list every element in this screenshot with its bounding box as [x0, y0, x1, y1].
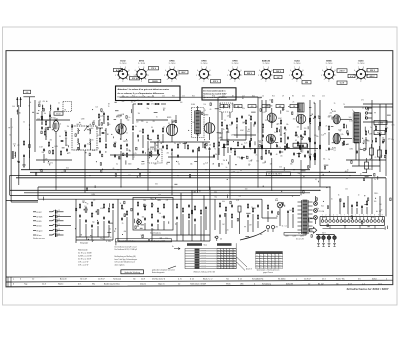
resistor R35 — [265, 149, 266, 155]
svg-text:40: 40 — [362, 108, 364, 110]
svg-text:60k: 60k — [365, 139, 368, 141]
svg-text:50p: 50p — [166, 199, 169, 201]
switch contact row 5 — [33, 229, 64, 233]
label box speaker 2 — [374, 131, 385, 135]
svg-text:50p: 50p — [152, 229, 155, 231]
label EL84 — [294, 60, 301, 66]
coil L7 — [89, 129, 92, 134]
svg-text:8k: 8k — [166, 163, 168, 165]
component labels band B tone — [75, 200, 116, 246]
svg-text:125: 125 — [139, 131, 142, 133]
power transformer pins — [298, 202, 313, 230]
svg-text:15k: 15k — [215, 154, 218, 156]
mixer grid extras — [98, 112, 108, 126]
svg-text:47k: 47k — [167, 152, 170, 154]
svg-text:12k: 12k — [259, 142, 262, 144]
resistor R85 — [343, 202, 344, 208]
tube V4 pentode — [204, 117, 215, 140]
svg-text:0,1: 0,1 — [11, 127, 13, 129]
svg-text:Ansicht: Ansicht — [60, 278, 67, 281]
dial lamp LP1 — [314, 202, 318, 206]
bus junction 3 — [89, 175, 90, 176]
wire ps8 — [261, 199, 263, 218]
wire f6 — [36, 119, 70, 121]
capacitor C22 — [254, 121, 256, 125]
svg-text:210 V: 210 V — [132, 78, 138, 80]
svg-text:40: 40 — [48, 162, 50, 164]
svg-text:25: 25 — [269, 99, 271, 101]
svg-text:0,1: 0,1 — [168, 123, 170, 125]
wire ot down 1 — [355, 143, 357, 161]
wire v2b — [126, 148, 128, 151]
capacitor C83 — [293, 152, 295, 156]
svg-text:oben ergeben.: oben ergeben. — [115, 264, 126, 266]
svg-text:30: 30 — [151, 127, 153, 129]
socket label box B11 — [337, 69, 347, 73]
wire f5 — [65, 138, 67, 146]
resistor R7 — [60, 150, 61, 156]
svg-text:C9: C9 — [282, 96, 284, 98]
wire tc6 — [108, 225, 110, 237]
svg-text:Tel.: Tel. — [226, 279, 230, 281]
svg-text:Der Innenwiderstand in: Der Innenwiderstand in — [203, 89, 226, 92]
svg-text:8,2k: 8,2k — [321, 206, 324, 208]
svg-text:215 V: 215 V — [340, 71, 346, 73]
capacitor C5 — [66, 148, 68, 152]
svg-text:Gedruckte Schaltung: Gedruckte Schaltung — [124, 271, 140, 274]
svg-text:50p: 50p — [214, 197, 217, 199]
resistor R68 — [137, 201, 138, 207]
svg-text:47k: 47k — [50, 163, 53, 165]
svg-text:C21: C21 — [162, 96, 165, 98]
tube V9 output — [333, 133, 340, 143]
svg-text:de ce schema, il y a d'importa: de ce schema, il y a d'importantes diffe… — [118, 92, 165, 95]
T1 dark column — [195, 249, 200, 269]
resistor R83 — [292, 207, 293, 213]
wire ant top — [23, 96, 35, 98]
resistor R97 — [41, 115, 42, 121]
electrolytic C41 — [378, 146, 382, 161]
wire link sparse 2 — [191, 190, 193, 241]
svg-text:125: 125 — [68, 153, 71, 155]
svg-text:5n: 5n — [163, 126, 165, 128]
electrolytic C77 — [365, 158, 369, 173]
wire f7 — [36, 159, 72, 161]
resistor R45 — [319, 121, 320, 127]
resistor R49 — [328, 125, 329, 131]
wire bl1 — [9, 176, 11, 196]
socket label box B4 — [149, 79, 161, 83]
svg-text:1 W = ca 1 W: 1 W = ca 1 W — [78, 262, 89, 264]
svg-text:5k: 5k — [298, 233, 300, 235]
svg-text:5k: 5k — [134, 101, 136, 103]
svg-text:60k: 60k — [372, 217, 375, 219]
socket pin 12 — [363, 215, 366, 223]
wire h1 — [300, 138, 302, 152]
svg-text:300: 300 — [158, 140, 161, 142]
svg-text:9: 9 — [147, 70, 148, 72]
capacitor C13 — [142, 150, 144, 154]
resistor R77 — [194, 205, 195, 211]
resistor R18 — [149, 151, 150, 157]
resistor R42 — [297, 141, 298, 147]
socket pin 2 — [325, 215, 328, 223]
svg-text:25: 25 — [120, 116, 122, 118]
wire ant rail 1 — [10, 118, 12, 202]
vertical link v4 — [147, 160, 149, 190]
junction dot 4 — [147, 190, 148, 191]
T1 left border — [184, 248, 186, 268]
component labels output — [325, 104, 350, 152]
resistor R31 — [223, 143, 224, 149]
svg-text:0.1: 0.1 — [295, 140, 297, 142]
wire tc5 — [103, 221, 105, 240]
wire rb6 — [366, 207, 368, 214]
resistor R51 — [343, 140, 344, 146]
component labels IF1 area — [133, 100, 170, 163]
resistor R65 — [112, 203, 113, 209]
wire e5 — [265, 100, 267, 112]
tube base diagram EF89 — [227, 67, 242, 83]
svg-text:9 - 70 14: 9 - 70 14 — [201, 63, 208, 65]
component labels band B mid — [120, 198, 177, 240]
svg-text:215: 215 — [256, 262, 258, 264]
svg-text:EL84: EL84 — [295, 60, 301, 63]
capacitor C18 — [209, 147, 211, 151]
lamp group feed line — [316, 232, 335, 234]
resistor R24 — [204, 143, 205, 149]
wire ratio s1 — [234, 149, 236, 152]
svg-text:2n: 2n — [360, 174, 362, 176]
svg-text:gegen Chassis: gegen Chassis — [263, 272, 273, 274]
svg-text:12k: 12k — [379, 211, 382, 213]
svg-text:8,2k: 8,2k — [341, 134, 344, 136]
resistor R67 — [126, 210, 127, 216]
wire ps1 — [219, 220, 221, 234]
capacitor C15 — [171, 148, 173, 152]
svg-text:215: 215 — [268, 260, 270, 262]
dial lamp LP2 — [314, 209, 318, 213]
svg-text:Klangregler: Klangregler — [80, 243, 89, 245]
svg-text:100: 100 — [379, 204, 382, 206]
extra right speckle — [300, 103, 384, 173]
svg-text:2n: 2n — [332, 117, 334, 119]
svg-text:R3: R3 — [292, 96, 294, 98]
svg-text:12.8.57: 12.8.57 — [304, 279, 312, 281]
svg-text:240: 240 — [26, 92, 29, 94]
svg-text:1k: 1k — [387, 128, 389, 130]
svg-text:L M K U: L M K U — [202, 260, 207, 262]
svg-text:100: 100 — [374, 201, 377, 203]
wire c5 — [236, 124, 238, 138]
svg-text:4: 4 — [199, 79, 200, 81]
wire mid h1 — [150, 141, 210, 143]
tube V3 pentode — [166, 120, 177, 143]
resistor R91 — [252, 207, 253, 213]
svg-text:12k: 12k — [96, 107, 99, 109]
switch list bracket — [55, 210, 57, 238]
label EZ80 — [358, 61, 365, 66]
capacitor C58 — [144, 217, 146, 221]
label EF89 — [201, 61, 208, 66]
capacitor C73 — [257, 204, 259, 208]
wire c7 — [250, 122, 252, 137]
wire rm4 — [363, 103, 393, 105]
svg-text:0,25: 0,25 — [236, 200, 239, 202]
resistor R25 — [213, 142, 214, 148]
label strip mb — [116, 239, 149, 243]
svg-text:215: 215 — [272, 262, 274, 264]
svg-text:215: 215 — [256, 257, 258, 259]
resistor R98 — [45, 120, 46, 126]
svg-text:215: 215 — [264, 267, 266, 269]
socket label box B10 — [302, 81, 311, 85]
note box Innenwiderstand — [202, 88, 236, 100]
svg-text:5n: 5n — [250, 118, 252, 120]
extra band B right speckle — [316, 178, 391, 213]
svg-text:30p: 30p — [391, 139, 394, 141]
trimmer osc — [156, 154, 160, 160]
resistor R47 — [319, 144, 320, 150]
svg-text:215: 215 — [276, 257, 278, 259]
svg-text:kann Trafo Spg. Schwankungen: kann Trafo Spg. Schwankungen — [115, 259, 138, 261]
svg-text:215: 215 — [256, 255, 258, 257]
svg-text:70: 70 — [334, 103, 336, 105]
svg-text:60k: 60k — [335, 118, 338, 120]
label EM80 — [326, 61, 333, 66]
resistor R1 — [23, 140, 24, 146]
wire e2 — [280, 126, 282, 136]
svg-text:12k: 12k — [297, 137, 300, 139]
svg-text:Sk 6064: Sk 6064 — [278, 279, 286, 281]
svg-text:C21: C21 — [302, 96, 305, 98]
upper row box 2 — [234, 105, 242, 109]
svg-text:40: 40 — [146, 122, 148, 124]
resistor R103 — [286, 143, 287, 149]
svg-text:0,1: 0,1 — [133, 156, 135, 158]
svg-text:125: 125 — [45, 159, 48, 161]
svg-text:8,2k: 8,2k — [66, 168, 69, 170]
capacitor C21 — [241, 115, 243, 119]
svg-text:220: 220 — [314, 135, 317, 137]
svg-text:8,2k: 8,2k — [239, 158, 242, 160]
socket label box B1 — [114, 68, 123, 72]
svg-text:5: 5 — [164, 75, 165, 77]
svg-text:70: 70 — [171, 154, 173, 156]
svg-text:100: 100 — [301, 152, 304, 154]
socket label box B8 — [274, 69, 284, 73]
capacitor C84 — [307, 150, 309, 154]
capacitor C64 — [194, 218, 196, 222]
svg-text:5: 5 — [227, 75, 228, 77]
vertical link v9 — [257, 133, 259, 187]
bus junction 7 — [205, 169, 206, 170]
mains plug — [266, 225, 274, 232]
svg-text:B6 aus: B6 aus — [37, 235, 42, 237]
svg-text:10k: 10k — [44, 113, 47, 115]
svg-text:C4: C4 — [262, 96, 264, 98]
resistor R60 — [79, 203, 80, 209]
AF coupling can — [298, 103, 305, 112]
svg-text:1k: 1k — [292, 196, 294, 198]
wire c3 — [221, 128, 223, 140]
svg-text:5n: 5n — [256, 107, 258, 109]
resistor R90 — [247, 203, 248, 209]
resistor R74 — [176, 203, 177, 209]
svg-text:12k: 12k — [248, 164, 251, 166]
component labels mixer — [99, 101, 133, 165]
wire rb3 — [351, 208, 353, 214]
wire ps2 — [225, 213, 227, 234]
svg-text:215: 215 — [260, 262, 262, 264]
socket label box B5 — [179, 71, 188, 75]
svg-text:60k: 60k — [290, 163, 293, 165]
svg-text:0,1: 0,1 — [315, 179, 317, 181]
resistor R21 — [177, 143, 178, 149]
resistor R64 — [108, 207, 109, 213]
capacitor C35 — [314, 141, 316, 145]
svg-text:5k: 5k — [23, 121, 25, 123]
svg-text:EZ80: EZ80 — [359, 61, 365, 63]
junction dot 13 — [329, 186, 330, 187]
wire ratio h — [230, 148, 318, 150]
svg-text:4: 4 — [261, 79, 262, 81]
svg-text:47k: 47k — [43, 101, 46, 103]
component labels driver — [293, 102, 329, 176]
svg-text:25: 25 — [273, 140, 275, 142]
wire ff2 — [49, 111, 51, 120]
svg-text:1k: 1k — [318, 116, 320, 118]
wire ratio s4 — [286, 144, 288, 149]
svg-text:EF80: EF80 — [139, 61, 145, 63]
svg-text:Wickel: Wickel — [377, 133, 382, 135]
svg-text:5n: 5n — [85, 145, 87, 147]
svg-text:5k: 5k — [308, 138, 310, 140]
svg-text:220: 220 — [174, 121, 177, 123]
wire rb5 — [361, 209, 363, 214]
resistor R40 — [295, 131, 296, 137]
wire c6 — [245, 126, 247, 140]
bus wire b3 — [24, 192, 310, 194]
component labels detector — [217, 98, 262, 169]
svg-text:300: 300 — [143, 200, 146, 202]
resistor R82 — [231, 213, 232, 219]
capacitor C74 — [271, 210, 273, 214]
svg-text:1k: 1k — [223, 129, 225, 131]
svg-text:12k: 12k — [345, 188, 348, 190]
wire e3 — [284, 132, 286, 144]
bus wire b4 — [10, 194, 300, 196]
resistor R13 — [132, 125, 133, 131]
coil L4 — [49, 105, 52, 110]
svg-text:60k: 60k — [222, 201, 225, 203]
svg-text:1k: 1k — [120, 203, 122, 205]
svg-text:0,1: 0,1 — [334, 150, 336, 152]
svg-text:125: 125 — [231, 104, 234, 106]
antenna small arrow — [17, 110, 22, 115]
bus junction 10 — [293, 169, 294, 170]
wire ps6 — [287, 214, 289, 228]
svg-text:10k: 10k — [84, 206, 87, 208]
socket pin 14 — [370, 215, 373, 223]
svg-text:215: 215 — [279, 255, 281, 257]
svg-text:500: 500 — [37, 118, 40, 120]
svg-text:2n: 2n — [370, 127, 372, 129]
svg-text:125: 125 — [227, 116, 230, 118]
svg-text:215: 215 — [264, 257, 266, 259]
svg-text:125: 125 — [265, 120, 268, 122]
svg-text:8,2k: 8,2k — [87, 143, 90, 145]
wire if1d — [90, 143, 92, 150]
svg-text:10k: 10k — [286, 124, 289, 126]
svg-text:10k: 10k — [93, 200, 96, 202]
capacitor C19 — [213, 154, 215, 158]
wire r2 down — [28, 150, 30, 170]
svg-text:Die Drehkond. M 12, C2 480 pF: Die Drehkond. M 12, C2 480 pF — [115, 249, 138, 251]
svg-text:40: 40 — [276, 154, 278, 156]
svg-text:220V~: 220V~ — [374, 193, 379, 195]
svg-text:Telefunken GmbH: Telefunken GmbH — [190, 284, 207, 286]
wire ps7 — [292, 214, 294, 228]
oscillator box — [148, 149, 162, 163]
wire tc7 — [112, 210, 114, 240]
voltage selector plate — [284, 233, 306, 236]
svg-text:EM80: EM80 — [326, 61, 332, 63]
wire mb3 — [144, 223, 146, 230]
vertical link v8 — [229, 155, 231, 199]
wire link sparse 3 — [203, 195, 205, 241]
svg-text:10k: 10k — [301, 212, 304, 214]
svg-text:50p: 50p — [127, 119, 130, 121]
svg-text:8k: 8k — [374, 125, 376, 127]
tube base diagram EF89 — [196, 67, 211, 83]
wire mb5 — [157, 224, 159, 230]
leader line 1 — [168, 266, 176, 269]
capacitor C80 — [241, 156, 243, 160]
svg-text:Schaltbild Nr.: Schaltbild Nr. — [252, 278, 264, 281]
capacitor C31 — [300, 134, 302, 138]
svg-text:0,25: 0,25 — [392, 125, 395, 127]
wire mb13 — [118, 240, 210, 242]
capacitor C61 — [163, 215, 165, 219]
note box Attention — [116, 86, 181, 101]
svg-text:125: 125 — [308, 155, 311, 157]
svg-text:215: 215 — [260, 265, 262, 267]
svg-text:15k: 15k — [82, 200, 85, 202]
resistor R44 — [309, 117, 310, 123]
svg-text:6.3 V: 6.3 V — [340, 83, 345, 85]
junction dot 6 — [197, 190, 198, 191]
tube base diagram EL84 — [289, 67, 304, 83]
svg-text:215: 215 — [256, 265, 258, 267]
component labels AF — [260, 97, 293, 171]
power transformer winding — [302, 200, 308, 234]
svg-text:215: 215 — [268, 257, 270, 259]
wire tc8 — [76, 236, 109, 238]
svg-text:25: 25 — [156, 117, 158, 119]
tube base diagram EABC80 — [258, 67, 273, 83]
socket label box B6 — [211, 80, 221, 84]
capacitor C14 — [162, 145, 164, 149]
coil L6 — [77, 139, 80, 144]
capacitor C54 — [103, 216, 105, 220]
svg-text:215: 215 — [260, 260, 262, 262]
junction dot 11 — [300, 186, 301, 187]
svg-text:8,2k: 8,2k — [242, 108, 245, 110]
wire g2 — [105, 128, 107, 142]
svg-text:0,25: 0,25 — [226, 229, 229, 231]
svg-text:Blatt 2 v. 2: Blatt 2 v. 2 — [203, 278, 213, 281]
